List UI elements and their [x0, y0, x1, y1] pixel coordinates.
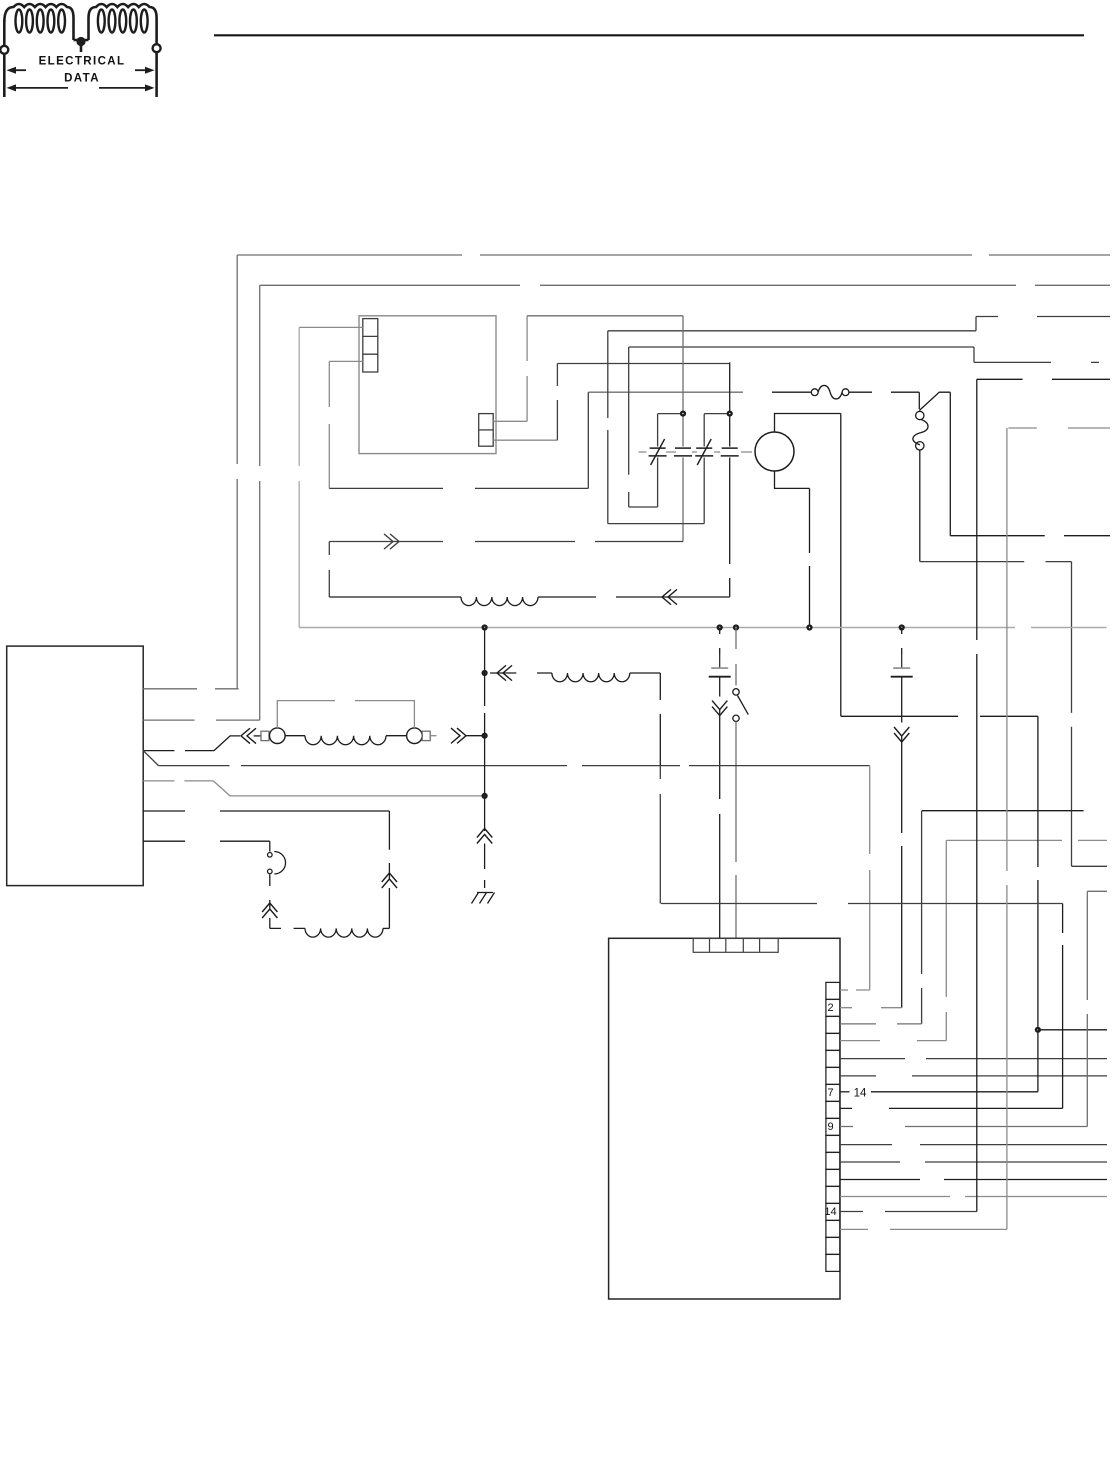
bus 24V common [299, 627, 1106, 629]
wire pin7 [840, 1091, 850, 1093]
connector jack J1 [662, 589, 677, 604]
terminal block TB1 on A1 [363, 319, 378, 372]
wire element out [430, 735, 436, 737]
wire TB2-1 top run [527, 315, 683, 317]
wire port 5 drop [388, 811, 390, 879]
wire flame to edge [974, 361, 1099, 363]
element terminal left [270, 728, 286, 744]
connector jack J3 [241, 728, 256, 743]
wire pin7 run [871, 1091, 1038, 1093]
svg-text:14: 14 [854, 1087, 867, 1099]
terminal 14 label [824, 1206, 836, 1218]
junction element/ground wire [482, 733, 488, 739]
wire ramp to bus [143, 751, 158, 766]
capacitor C1 plates [649, 439, 667, 465]
wire to junction [466, 735, 485, 737]
wire secondary [490, 672, 552, 674]
svg-text:7: 7 [827, 1087, 833, 1099]
wire TB1-3 [329, 360, 363, 362]
wire secondary drop lower [659, 766, 661, 904]
junction bus/motor lead [806, 624, 812, 630]
wire M1 bottom drop [809, 488, 811, 627]
terminal strip top of A2 [693, 938, 778, 952]
wire ground lower [484, 844, 486, 889]
wire cap A lower [719, 677, 721, 697]
ignition control module A1 [359, 316, 496, 454]
wire pin14 [840, 1211, 977, 1213]
furnace control board A2 [609, 938, 840, 1299]
wire port 6 drop [269, 841, 271, 851]
wire switch S2 to board [735, 722, 737, 939]
capacitor C3 lead [703, 414, 705, 524]
wire TB1-3 drop [328, 361, 330, 488]
capacitor C2 lead / riser [682, 316, 684, 542]
wire to element lug [254, 735, 261, 737]
wire box port 3 [143, 750, 214, 752]
wire to fuse [588, 391, 743, 393]
junction bus/cap B [899, 624, 905, 630]
wire C3 bottom loop [608, 523, 704, 525]
wire pin2 [840, 1007, 902, 1009]
capacitor C4 plates [721, 448, 739, 456]
compressor motor M1 [755, 432, 794, 471]
wire to edge from junction [1038, 1029, 1107, 1031]
transformer secondary winding [552, 673, 630, 682]
wire box port 2 [143, 719, 260, 721]
wire pin6 to edge [840, 1075, 1107, 1077]
connector down B [894, 727, 909, 742]
wire primary bottom [329, 596, 461, 598]
svg-text:DATA: DATA [64, 73, 100, 85]
junction C2 top [680, 411, 686, 417]
wire TB1-1 to L-drop [299, 326, 363, 328]
wire sense run [608, 330, 976, 332]
capacitor C2 plates [674, 448, 692, 456]
wire pin8 riser [1062, 904, 1064, 1109]
wire bus to cap B [901, 628, 903, 655]
wire pin7 riser [1037, 716, 1039, 1092]
element terminal right [407, 728, 423, 744]
transformer winding left [4, 4, 73, 40]
wire C1 top [658, 413, 683, 415]
wire riser to fuse line [587, 392, 589, 488]
wire valve [270, 927, 305, 929]
wire pin1 [840, 989, 870, 991]
wire primary top [329, 541, 683, 543]
wire C3 top [704, 413, 730, 415]
capacitor CB [891, 655, 913, 677]
connector down A [712, 701, 727, 716]
svg-text:ELECTRICAL: ELECTRICAL [39, 56, 126, 68]
wire box port 5 [143, 810, 389, 812]
indoor unit terminal box [7, 646, 144, 886]
junction bus/switch [733, 624, 739, 630]
wire primary bottom right [538, 596, 730, 598]
wire cap B to terminal 2 [901, 736, 903, 1008]
wire pin9 riser [1086, 891, 1088, 1126]
wire L1 top run [237, 254, 1110, 256]
wire C1 loop riser [628, 347, 630, 507]
wire switch to edge [950, 535, 1110, 537]
capacitor CA [709, 655, 731, 677]
wire bus to switch S2 [735, 628, 737, 686]
wire switch drop [949, 392, 951, 536]
wire port 4 run [240, 795, 485, 797]
wire M1 run right [841, 715, 1038, 717]
center tap [74, 37, 89, 52]
wire to valve coil [269, 918, 271, 928]
right terminal [153, 44, 161, 52]
inline label 14 [854, 1087, 867, 1099]
wire secondary run right [661, 903, 1063, 905]
wire module loop [329, 487, 588, 489]
wire TB2-1 riser [526, 316, 528, 422]
wire pin3 top run [922, 810, 1084, 812]
wire overload drop [919, 450, 921, 562]
wire TB2-2 [493, 439, 557, 441]
wire M1 top lead drop [840, 414, 842, 717]
dimension arrow upper-right [135, 67, 155, 74]
connector jack J2 [497, 665, 512, 680]
wire caps to motor [639, 451, 753, 453]
wire ramp port 4 [213, 781, 240, 796]
wire pin3 [840, 1023, 922, 1025]
overload protector OL1 [913, 411, 928, 450]
wire sense to edge [976, 316, 1110, 318]
wire fuse to switch [891, 391, 919, 393]
title rule [214, 34, 1084, 36]
wire pin15 [840, 1228, 1007, 1230]
dimension arrow lower-left [7, 84, 69, 91]
junction pin7/edge wire [1035, 1027, 1041, 1033]
heater element HE1 [305, 736, 386, 745]
wire flame step [973, 347, 975, 362]
wire pin4 [840, 1040, 946, 1042]
bus drop to board [869, 766, 871, 990]
wire C1 bottom loop [629, 506, 658, 508]
capacitor C1 lead [657, 414, 659, 507]
right lead [155, 18, 158, 97]
connector up J6 [477, 829, 492, 844]
terminal 9 label [827, 1121, 833, 1133]
dimension arrow upper-left [7, 67, 27, 74]
wire pin5 to edge [840, 1058, 1107, 1060]
label ELECTRICAL DATA [39, 56, 126, 85]
left terminal [0, 46, 8, 54]
wire box port 1 [143, 688, 238, 690]
transformer winding right [89, 4, 157, 40]
wire gray to edge [1008, 427, 1110, 429]
switch blade SW1 [919, 392, 950, 410]
wire TB2-1 [493, 420, 527, 422]
wire cap A to board [719, 710, 721, 939]
wire ground chain [484, 628, 486, 832]
wire flame run [629, 346, 974, 348]
terminal block TB2 on A1 [479, 414, 494, 447]
svg-text:2: 2 [827, 1002, 833, 1014]
wire box port 4 [143, 780, 213, 782]
wire overload drop right [1071, 562, 1073, 867]
wire primary left [328, 542, 330, 598]
wire bus to cap A [719, 628, 721, 655]
capacitor C3 plates [695, 439, 713, 465]
wire overload to edge [1072, 865, 1108, 867]
junction port4/ground wire [482, 793, 488, 799]
bus line common [159, 765, 870, 767]
wire C3 loop riser [607, 331, 609, 524]
junction bus/ground wire [482, 624, 488, 630]
wire M1 top lead [775, 414, 841, 433]
junction secondary/ground wire [482, 670, 488, 676]
door switch S3 [268, 852, 286, 875]
wire pin10 to edge [840, 1144, 1107, 1146]
element lug left [261, 731, 269, 740]
wire sense step [975, 317, 977, 331]
terminal 7 label [827, 1087, 833, 1099]
junction bus/cap A [717, 624, 723, 630]
wire pin3 riser [921, 811, 923, 1024]
wire pin13 to edge [840, 1196, 1107, 1198]
wire pin9 to edge [1087, 890, 1107, 892]
wire hv to edge [977, 378, 1110, 380]
gas valve coil GV1 [305, 928, 383, 937]
wire TB2-2 run to C-lead [557, 363, 729, 365]
connector up J4 [382, 873, 397, 888]
element lug right [422, 731, 430, 740]
ground [472, 893, 495, 904]
terminal 2 label [827, 1002, 833, 1014]
wire gray right [946, 839, 1107, 841]
wire port5 to coil [388, 888, 390, 928]
wire TB2-2 riser [556, 364, 558, 441]
left lead [3, 20, 6, 97]
wire valve right [383, 927, 389, 929]
wire M1 bottom lead [775, 471, 810, 488]
wire pin9 [840, 1126, 1087, 1128]
svg-text:9: 9 [827, 1121, 833, 1133]
wire pin4 riser [945, 840, 947, 1040]
wire element right [386, 735, 407, 737]
wire L2 top run [260, 284, 1110, 286]
transformer primary winding T1 [461, 597, 538, 606]
connector up J5 [262, 903, 277, 918]
wire secondary drop [659, 673, 661, 765]
wire element [285, 735, 305, 737]
fuse F1 [772, 385, 872, 399]
wire pin14 riser [976, 379, 978, 1211]
wire L2 drop [259, 285, 261, 720]
wire box port 6 [143, 840, 270, 842]
wire to 24V bus drop [298, 327, 300, 627]
svg-text:14: 14 [824, 1206, 836, 1218]
wire element bypass [277, 701, 414, 728]
capacitor C4 lead / drop [729, 362, 731, 597]
junction C4 top [727, 411, 733, 417]
connector plug P2 [451, 728, 466, 743]
connector plug P1 [384, 534, 399, 549]
wire secondary right [630, 672, 661, 674]
edge connector strip on A2 [826, 982, 840, 1271]
dimension arrow lower-right [99, 84, 155, 91]
wire pin8 [840, 1107, 1063, 1109]
wire pin11 to edge [840, 1161, 1107, 1163]
wire ramp to element [214, 736, 240, 751]
wire S3 lower [269, 875, 271, 910]
wire pin12 to edge [840, 1179, 1107, 1181]
wire L1 drop [236, 255, 238, 689]
wire pin15 riser [1006, 428, 1008, 1229]
wire cap B lower [901, 677, 903, 723]
switch S2 [733, 689, 749, 722]
wire overload run [920, 561, 1072, 563]
